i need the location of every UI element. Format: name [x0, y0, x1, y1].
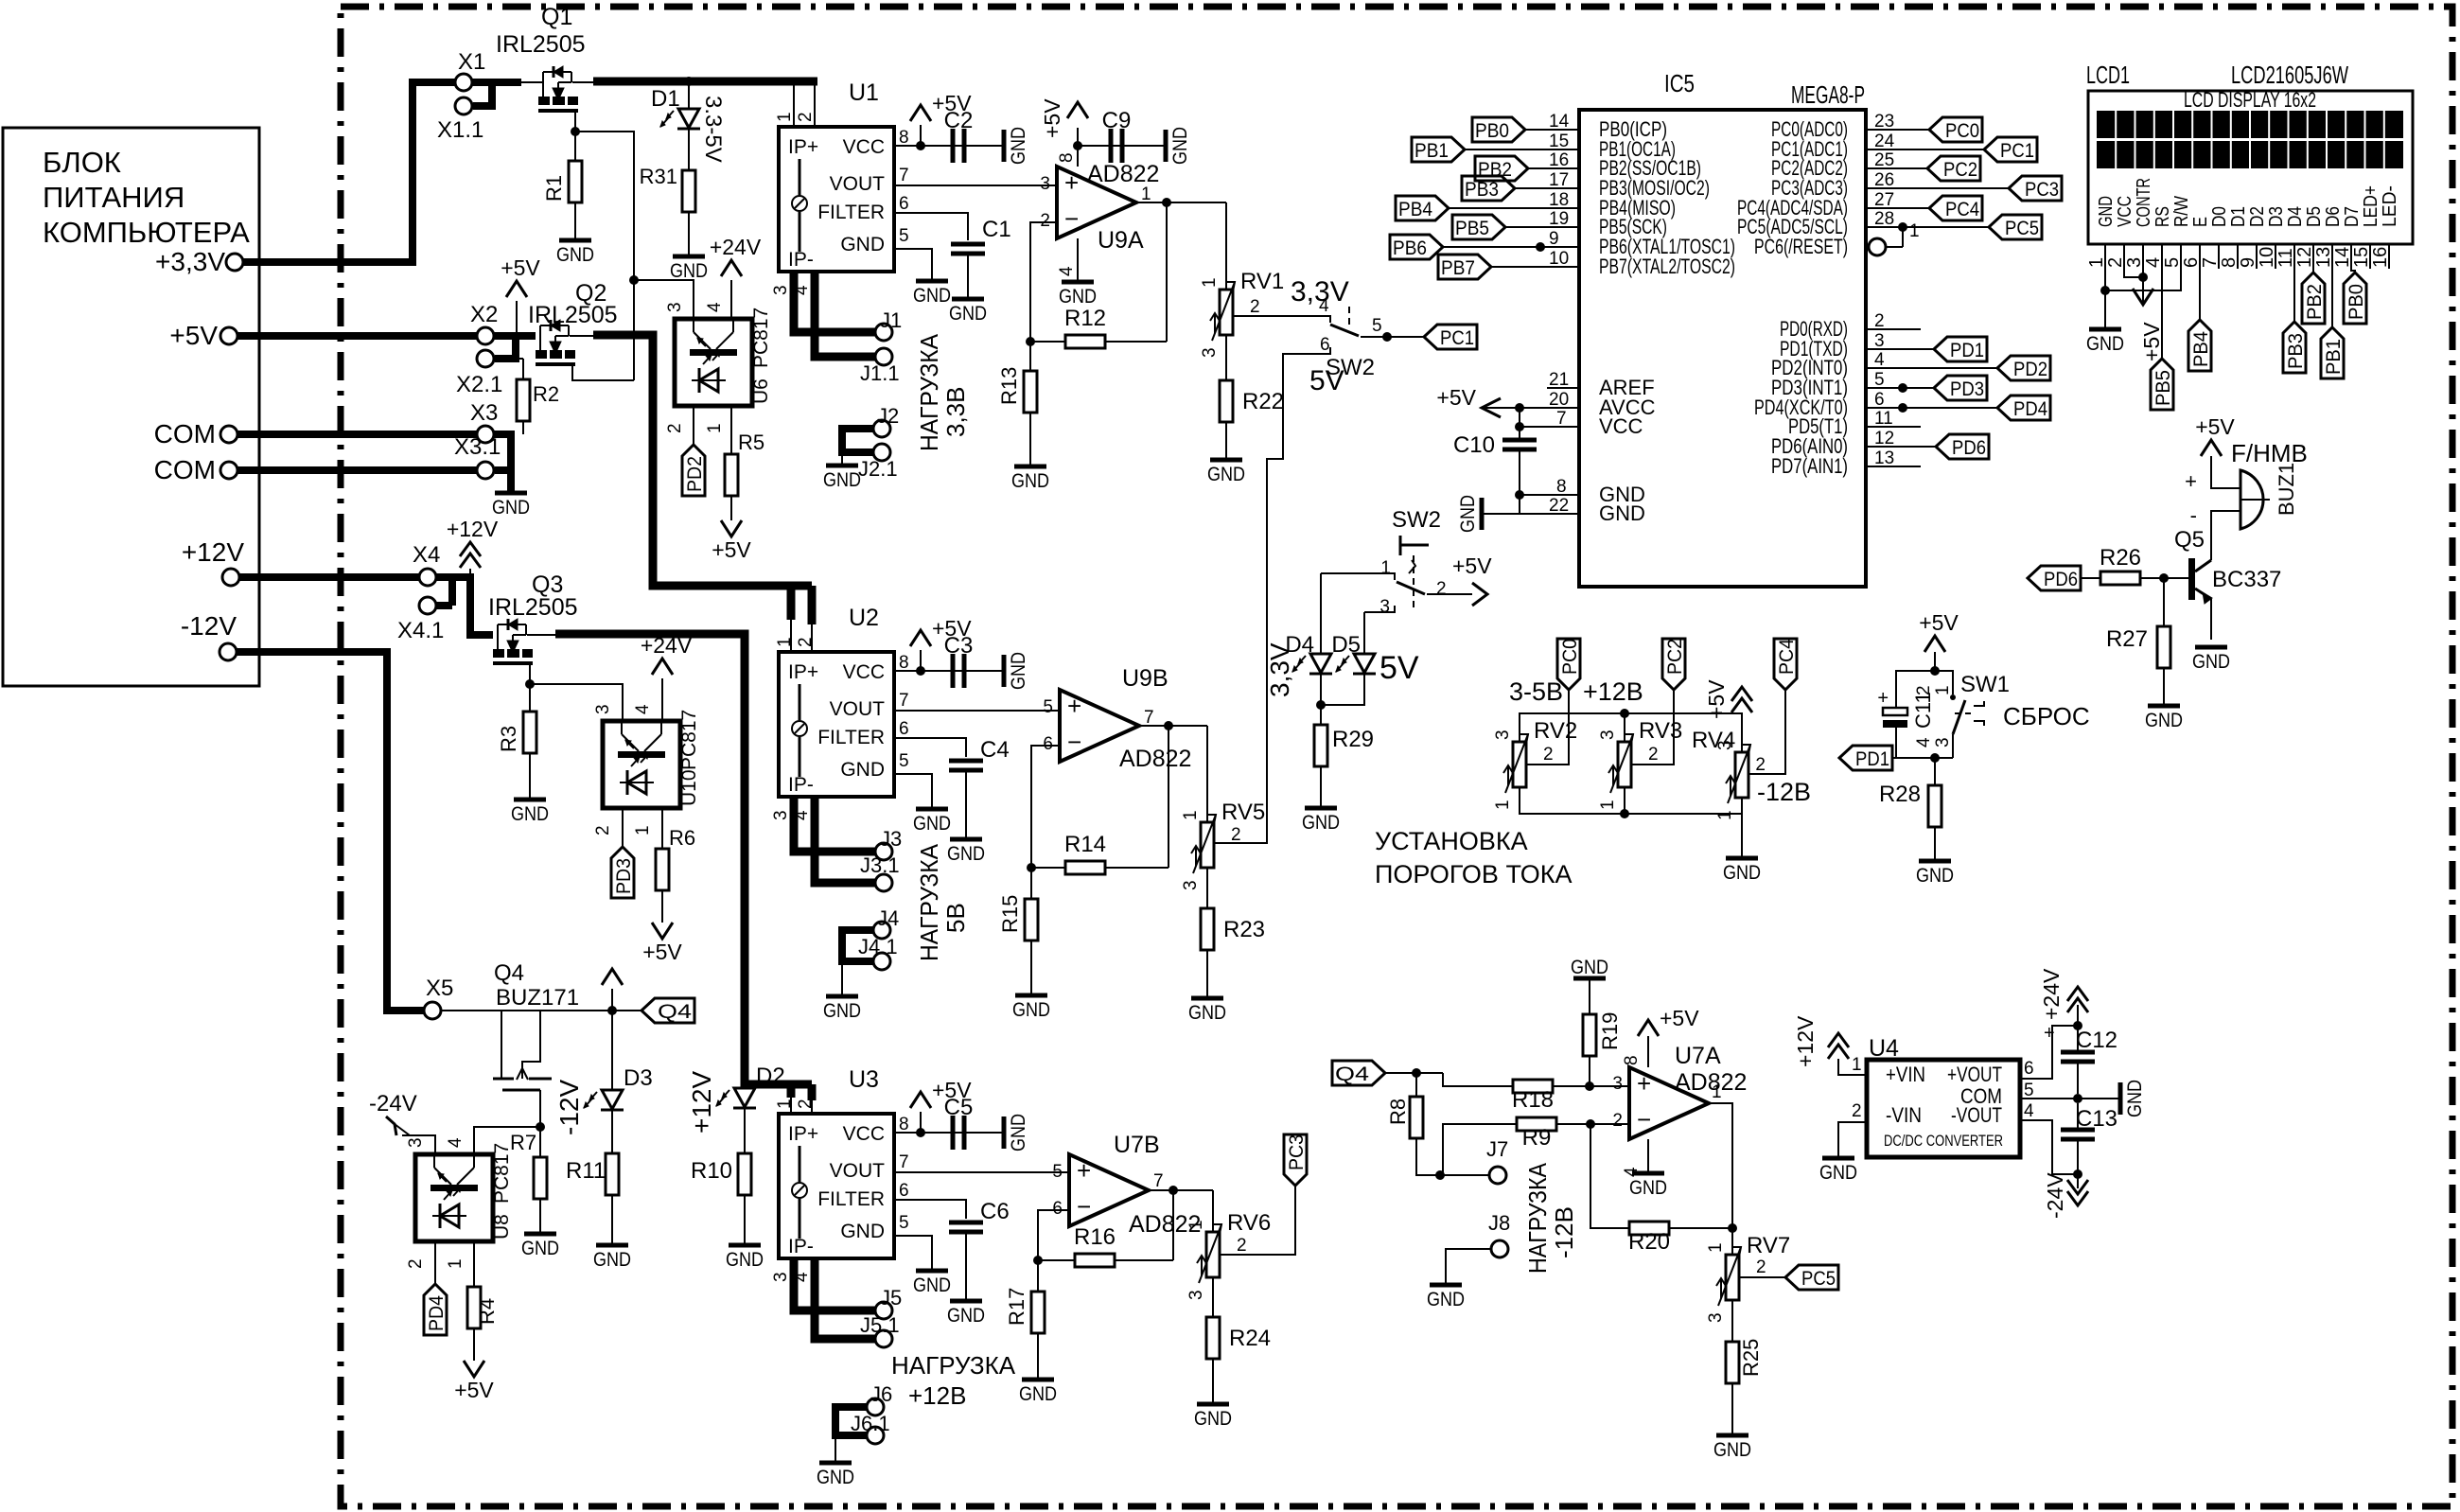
svg-text:GND: GND	[1599, 501, 1645, 525]
svg-text:GND: GND	[521, 1238, 559, 1259]
wire +12V bus stubs to U3 pins	[787, 1084, 796, 1098]
svg-text:+5V: +5V	[1919, 610, 1959, 635]
svg-text:R3: R3	[497, 726, 520, 752]
ground R7	[524, 1232, 556, 1237]
svg-text:GND: GND	[1169, 127, 1191, 165]
svg-text:2: 2	[665, 423, 685, 433]
svg-text:R19: R19	[1598, 1012, 1622, 1050]
svg-text:УСТАНОВКА: УСТАНОВКА	[1375, 827, 1528, 855]
svg-text:R6: R6	[669, 826, 695, 850]
svg-text:+12В: +12В	[908, 1381, 966, 1410]
svg-text:IP+: IP+	[788, 1123, 818, 1145]
connector X3	[477, 426, 494, 443]
svg-text:1: 1	[705, 423, 725, 433]
node COM	[2073, 1094, 2082, 1103]
svg-text:GND: GND	[840, 234, 885, 255]
ground C5	[1002, 1116, 1007, 1149]
flag PB5	[1452, 215, 1505, 239]
svg-text:C3: C3	[944, 633, 974, 659]
svg-text:R7: R7	[510, 1131, 536, 1154]
svg-text:ПОРОГОВ ТОКА: ПОРОГОВ ТОКА	[1375, 860, 1572, 888]
svg-text:GND: GND	[1819, 1162, 1857, 1184]
svg-text:10: 10	[2257, 247, 2277, 268]
svg-text:GND: GND	[1059, 286, 1097, 308]
svg-text:−: −	[1077, 1192, 1091, 1221]
svg-text:D2: D2	[2247, 206, 2268, 227]
svg-text:U6: U6	[750, 378, 772, 404]
svg-text:PC817: PC817	[678, 710, 700, 770]
svg-text:3: 3	[771, 285, 791, 295]
svg-text:PC6(/RESET): PC6(/RESET)	[1754, 235, 1848, 258]
svg-text:11: 11	[2275, 248, 2296, 268]
wire C1 to ground	[967, 254, 969, 297]
resistor R7	[539, 1127, 541, 1157]
svg-text:GND: GND	[1008, 652, 1029, 690]
node U3 VCC	[916, 1128, 925, 1137]
connector J3.1	[875, 874, 892, 891]
flag PD1	[1934, 337, 1987, 361]
node PD4	[1898, 403, 1907, 413]
svg-text:J1: J1	[880, 308, 902, 332]
svg-text:DC/DC CONVERTER: DC/DC CONVERTER	[1884, 1132, 2003, 1150]
wire U8 pin3 to -24V	[402, 1135, 435, 1154]
node SW1 bottom	[1930, 753, 1940, 763]
svg-text:U3: U3	[849, 1066, 879, 1093]
op-amp U7B AD822	[1069, 1154, 1149, 1226]
svg-text:J4.1: J4.1	[858, 935, 898, 958]
wire node to R28	[1934, 758, 1936, 785]
svg-text:−: −	[1637, 1105, 1651, 1134]
wire Q4 flag to R8 R18	[1385, 1072, 1443, 1074]
capacitor C12	[2077, 1005, 2079, 1052]
svg-text:GND: GND	[947, 1305, 985, 1327]
svg-text:1: 1	[1706, 1242, 1726, 1253]
svg-text:GND: GND	[1571, 957, 1608, 978]
svg-text:PC1: PC1	[1440, 327, 1474, 349]
ground U2 pin5	[916, 807, 948, 812]
svg-text:-24V: -24V	[369, 1091, 417, 1116]
wire SW2 pin6 to RV5 wiper	[1214, 354, 1323, 843]
svg-text:R1: R1	[542, 175, 566, 202]
svg-text:GND: GND	[840, 759, 885, 781]
svg-text:J5: J5	[880, 1286, 902, 1310]
flag PC2	[1662, 639, 1685, 690]
ground U3 pin5	[916, 1269, 948, 1274]
svg-text:8: 8	[1622, 1055, 1642, 1065]
svg-text:12: 12	[2294, 247, 2315, 268]
wire LCD pin4 to PB5	[2161, 269, 2163, 359]
svg-text:D5: D5	[1331, 632, 1361, 658]
transistor Q2 IRL2505	[539, 325, 541, 350]
power +24V arrow U6	[721, 260, 742, 276]
svg-text:1: 1	[1933, 685, 1953, 695]
svg-text:1: 1	[1715, 810, 1735, 820]
wire U9B -input feedback	[1031, 746, 1060, 868]
svg-text:1: 1	[1852, 1055, 1862, 1075]
svg-text:X5: X5	[426, 976, 453, 1001]
wire RV top rail	[1520, 713, 1742, 752]
svg-text:+12V: +12V	[1793, 1015, 1818, 1067]
LED D5	[1354, 654, 1375, 673]
wire Q4 source to U8 pin4	[474, 1127, 540, 1154]
LED D1	[684, 77, 694, 86]
svg-text:F/HMB: F/HMB	[2231, 439, 2308, 467]
LCD black row 1	[2097, 111, 2403, 138]
svg-text:3: 3	[771, 810, 791, 820]
svg-text:3: 3	[1493, 730, 1513, 740]
resistor R19	[1583, 1014, 1596, 1056]
svg-text:5: 5	[1043, 697, 1053, 717]
wire U2 FILTER to C4	[894, 738, 966, 757]
wire C10 to ground net	[1519, 449, 1520, 495]
svg-text:GND: GND	[1713, 1439, 1751, 1461]
svg-text:MEGA8-P: MEGA8-P	[1791, 80, 1865, 109]
ground R27	[2148, 704, 2180, 709]
svg-text:2: 2	[2105, 257, 2126, 268]
svg-text:3: 3	[1933, 737, 1953, 747]
svg-text:10: 10	[1549, 249, 1569, 269]
svg-text:3: 3	[1598, 730, 1618, 740]
wire D4 D5 to R29	[1320, 675, 1322, 725]
wire Q4 drain to flag	[540, 1010, 641, 1011]
wire R18 top path	[1443, 1073, 1513, 1086]
svg-text:БЛОК: БЛОК	[43, 146, 121, 179]
svg-text:+5V: +5V	[1436, 385, 1476, 410]
svg-text:FILTER: FILTER	[817, 1188, 885, 1210]
flag PB3	[1462, 176, 1515, 201]
node R9 R20	[1586, 1119, 1595, 1129]
wire J7 node up to R9	[1440, 1124, 1517, 1175]
svg-text:24: 24	[1874, 132, 1895, 151]
resistor R3	[529, 684, 531, 712]
svg-text:PD3: PD3	[1950, 378, 1984, 400]
ground LCD	[2089, 327, 2121, 332]
flag PC5 right	[1989, 215, 2042, 239]
node AVCC	[1515, 403, 1524, 413]
current sensor U2	[779, 652, 894, 797]
resistor R29	[1314, 725, 1327, 766]
wire C4 to ground	[965, 770, 967, 837]
svg-text:9: 9	[1549, 229, 1559, 249]
svg-text:X1.1: X1.1	[437, 117, 483, 143]
svg-text:R16: R16	[1074, 1224, 1116, 1250]
power +5V arrow RV rail	[1731, 687, 1752, 701]
svg-text:U7B: U7B	[1114, 1132, 1160, 1158]
wire AREF stub	[1547, 387, 1579, 389]
svg-text:VCC: VCC	[1599, 414, 1643, 438]
svg-text:RV1: RV1	[1240, 269, 1284, 294]
power +5V arrow U7A	[1638, 1020, 1659, 1036]
flag PC2 right	[1927, 156, 1980, 181]
svg-text:U4: U4	[1869, 1035, 1899, 1062]
svg-text:5: 5	[899, 751, 909, 771]
svg-text:J7: J7	[1486, 1137, 1508, 1161]
svg-text:3: 3	[1040, 174, 1050, 194]
ground R11	[596, 1243, 628, 1248]
svg-text:2: 2	[1237, 1236, 1247, 1256]
svg-text:R29: R29	[1332, 727, 1374, 752]
resistor R10	[738, 1153, 751, 1195]
wire U7A output	[1709, 1103, 1732, 1255]
wire output to R12	[1166, 202, 1168, 342]
flag PB2	[1475, 156, 1528, 181]
flag PB1 LCD	[2321, 327, 2344, 378]
LED D2	[744, 1084, 746, 1088]
svg-text:X2: X2	[470, 302, 498, 327]
svg-text:C6: C6	[980, 1199, 1010, 1224]
wire R18 to +input	[1553, 1085, 1629, 1087]
current sensor U3	[779, 1114, 894, 1258]
svg-text:D4: D4	[2285, 206, 2306, 227]
svg-text:BUZ171: BUZ171	[496, 985, 579, 1011]
svg-text:+: +	[1064, 168, 1079, 197]
wire J2 to ground	[841, 452, 843, 464]
svg-text:12: 12	[1874, 429, 1894, 448]
svg-text:GND: GND	[1629, 1177, 1667, 1199]
svg-text:PB5: PB5	[2152, 370, 2174, 406]
flag PC4 right	[1929, 196, 1982, 220]
svg-text:6: 6	[899, 1181, 909, 1201]
svg-text:PB1: PB1	[1414, 140, 1449, 162]
svg-text:+5V: +5V	[169, 321, 218, 350]
wire Q3 gate to R3	[529, 665, 531, 684]
svg-text:FILTER: FILTER	[817, 727, 885, 748]
svg-text:J5.1: J5.1	[860, 1313, 900, 1337]
connector J6	[867, 1398, 884, 1415]
svg-text:16: 16	[2370, 247, 2391, 268]
svg-text:PD1: PD1	[1950, 340, 1984, 361]
svg-text:3: 3	[2124, 257, 2145, 268]
svg-text:IP-: IP-	[788, 774, 814, 796]
resistor R14	[1031, 867, 1065, 869]
wire LCD pin13 to PB1	[2331, 269, 2333, 327]
svg-text:GND: GND	[913, 285, 951, 307]
ground C9	[1164, 130, 1168, 162]
transistor Q1 IRL2505	[542, 72, 544, 97]
wire IC5 left pins	[1525, 129, 1579, 131]
svg-text:IP-: IP-	[788, 249, 814, 271]
flag PB0 LCD	[2344, 273, 2366, 324]
svg-text:J1.1: J1.1	[860, 361, 900, 385]
wire +5V to buzzer plus	[2211, 456, 2240, 488]
svg-text:4: 4	[633, 704, 653, 714]
svg-text:D0: D0	[2209, 206, 2230, 227]
svg-text:3: 3	[1186, 1290, 1206, 1300]
wire R5 to +5V	[730, 496, 732, 520]
flag PC1	[1424, 325, 1477, 349]
wire base node to R27	[2163, 578, 2165, 626]
svg-text:J3: J3	[880, 827, 902, 851]
svg-text:C2: C2	[944, 108, 974, 133]
wire U2 GND pin5 to ground	[894, 774, 932, 807]
svg-text:SW2: SW2	[1326, 355, 1375, 380]
svg-text:C5: C5	[944, 1095, 974, 1120]
capacitor C6	[949, 1221, 983, 1225]
svg-text:IRL2505: IRL2505	[488, 594, 578, 621]
ground J6	[819, 1461, 852, 1466]
svg-text:2: 2	[1040, 211, 1050, 231]
svg-text:R10: R10	[691, 1158, 732, 1184]
flag PB4 LCD	[2188, 320, 2211, 371]
svg-text:+24V: +24V	[641, 633, 693, 658]
svg-text:GND: GND	[2096, 196, 2117, 227]
power +5V arrow SW1	[1924, 636, 1945, 652]
svg-text:НАГРУЗКА: НАГРУЗКА	[915, 843, 943, 961]
svg-text:2: 2	[1914, 685, 1934, 695]
wire R22 to ground	[1225, 422, 1227, 458]
power +5V down arrow R5	[721, 520, 742, 536]
PSU box БЛОК ПИТАНИЯ КОМПЬЮТЕРА	[3, 128, 259, 686]
svg-text:C13: C13	[2076, 1106, 2117, 1132]
svg-text:3: 3	[1706, 1312, 1726, 1323]
svg-text:C4: C4	[980, 737, 1010, 763]
svg-text:R4: R4	[475, 1298, 499, 1325]
svg-text:R2: R2	[533, 382, 559, 406]
wire U8 pin2 to PD4	[434, 1241, 436, 1284]
IC5 reset circle	[1869, 238, 1886, 255]
wire J6 tie	[835, 1407, 867, 1435]
svg-text:PB2: PB2	[1478, 159, 1512, 181]
svg-text:R25: R25	[1739, 1339, 1763, 1377]
node output RV7	[1728, 1223, 1737, 1233]
svg-text:AD822: AD822	[1119, 746, 1191, 772]
svg-text:2: 2	[1436, 579, 1447, 599]
svg-text:GND: GND	[823, 469, 861, 491]
wire R29 to ground	[1320, 766, 1322, 806]
wire COM2 to X3.1	[237, 466, 477, 474]
svg-text:PD3: PD3	[613, 858, 635, 894]
svg-text:+: +	[1637, 1069, 1651, 1098]
svg-text:U9B: U9B	[1122, 665, 1168, 692]
node VCC	[1515, 422, 1524, 431]
wire R8 to J7 node	[1416, 1138, 1440, 1175]
svg-text:2: 2	[593, 825, 613, 835]
svg-text:СБРОС: СБРОС	[2003, 702, 2090, 730]
svg-text:-: -	[2190, 503, 2197, 527]
power +5V arrow U1	[920, 125, 922, 146]
svg-text:4: 4	[2024, 1101, 2034, 1121]
svg-text:R28: R28	[1879, 782, 1921, 807]
wire IC5 right PC pins	[1866, 129, 1929, 131]
op-amp U9A AD822	[1057, 167, 1136, 238]
svg-text:1: 1	[1380, 558, 1391, 578]
wire Q4 drain	[501, 1010, 540, 1011]
svg-text:1: 1	[446, 1258, 466, 1269]
svg-text:X3.1: X3.1	[454, 434, 501, 460]
svg-text:2: 2	[796, 1099, 816, 1109]
node U1 VCC	[916, 141, 925, 150]
svg-text:3: 3	[406, 1137, 426, 1148]
svg-text:6: 6	[1320, 335, 1330, 355]
node PB6	[1536, 242, 1545, 252]
flag Q4 output	[641, 998, 694, 1023]
resistor R24	[1206, 1317, 1220, 1359]
node R16 R17	[1033, 1256, 1043, 1265]
flag PC0	[1557, 639, 1580, 690]
svg-text:D2: D2	[756, 1064, 785, 1089]
svg-text:R8: R8	[1386, 1099, 1410, 1125]
svg-text:GND: GND	[726, 1249, 764, 1271]
connector J5	[875, 1302, 892, 1319]
svg-text:PB7(XTAL2/TOSC2): PB7(XTAL2/TOSC2)	[1599, 255, 1735, 278]
svg-text:X1: X1	[458, 49, 485, 75]
power +5V down arrow LCD	[2133, 289, 2153, 305]
ground J4	[826, 994, 858, 999]
svg-text:LED+: LED+	[2361, 185, 2381, 227]
svg-text:25: 25	[1874, 150, 1894, 170]
wire Q2 drain to +5V bus	[570, 335, 593, 337]
svg-text:PC1: PC1	[2000, 140, 2034, 162]
power +5V arrow U2	[920, 650, 922, 671]
wire RV6 pin3 to R24	[1212, 1277, 1214, 1317]
svg-text:6: 6	[1052, 1199, 1063, 1219]
connector J8	[1491, 1240, 1508, 1257]
svg-text:3,3В: 3,3В	[941, 387, 970, 438]
wire +12V to U4 pin1	[1838, 1059, 1867, 1075]
svg-text:3: 3	[1181, 880, 1201, 890]
flag PB4	[1396, 196, 1449, 220]
wire R19 to node	[1589, 1056, 1590, 1082]
wire C12 bottom to node	[2077, 1062, 2079, 1094]
svg-text:VCC: VCC	[843, 1123, 885, 1145]
capacitor C10	[1502, 438, 1537, 443]
svg-text:7: 7	[899, 166, 909, 185]
svg-text:LED-: LED-	[2380, 185, 2400, 227]
potentiometer RV2	[1513, 742, 1526, 787]
svg-text:GND: GND	[1194, 1408, 1232, 1430]
svg-text:+VOUT: +VOUT	[1947, 1063, 2002, 1086]
capacitor C1	[951, 242, 985, 247]
svg-text:J4: J4	[877, 906, 899, 930]
connector X5	[424, 1002, 441, 1019]
current sensor U1	[779, 127, 894, 272]
wire C6 to ground	[965, 1232, 967, 1299]
wire -12V to X5	[237, 652, 424, 1011]
svg-text:GND: GND	[1008, 127, 1029, 165]
resistor R26	[2100, 571, 2140, 585]
svg-text:COM: COM	[154, 455, 216, 484]
svg-text:R27: R27	[2106, 626, 2148, 652]
wire R25 to ground	[1731, 1383, 1733, 1433]
wire SW1 pin3 to bottom node	[1952, 734, 1954, 758]
wire Q3 gate node to U10 pin3	[530, 684, 623, 721]
svg-text:+5V: +5V	[1452, 554, 1492, 578]
svg-text:GND: GND	[1723, 862, 1761, 884]
node C12 top	[2073, 1021, 2082, 1030]
wire U7A pin8 +5V	[1647, 1036, 1649, 1067]
wire buzzer minus to Q5	[2211, 511, 2240, 560]
flag PB0	[1472, 117, 1525, 142]
svg-text:IRL2505: IRL2505	[528, 302, 618, 328]
svg-text:2: 2	[1852, 1101, 1862, 1121]
svg-text:20: 20	[1549, 390, 1569, 410]
power -24V arrow C13	[2067, 1191, 2088, 1205]
node R14 R15	[1027, 863, 1036, 872]
svg-text:R18: R18	[1512, 1087, 1554, 1113]
svg-text:GND: GND	[2086, 333, 2124, 355]
svg-text:+5V: +5V	[2139, 322, 2164, 361]
svg-text:IP+: IP+	[788, 136, 818, 158]
svg-text:3: 3	[593, 704, 613, 714]
wire J2 tie	[842, 429, 873, 452]
ground R15	[1015, 993, 1047, 998]
svg-text:17: 17	[1549, 170, 1569, 190]
connector X2	[477, 327, 494, 344]
wire X2 tie	[494, 332, 536, 340]
svg-text:GND: GND	[2192, 651, 2230, 673]
svg-text:U7A: U7A	[1675, 1043, 1721, 1069]
svg-text:PB5: PB5	[1455, 218, 1489, 239]
